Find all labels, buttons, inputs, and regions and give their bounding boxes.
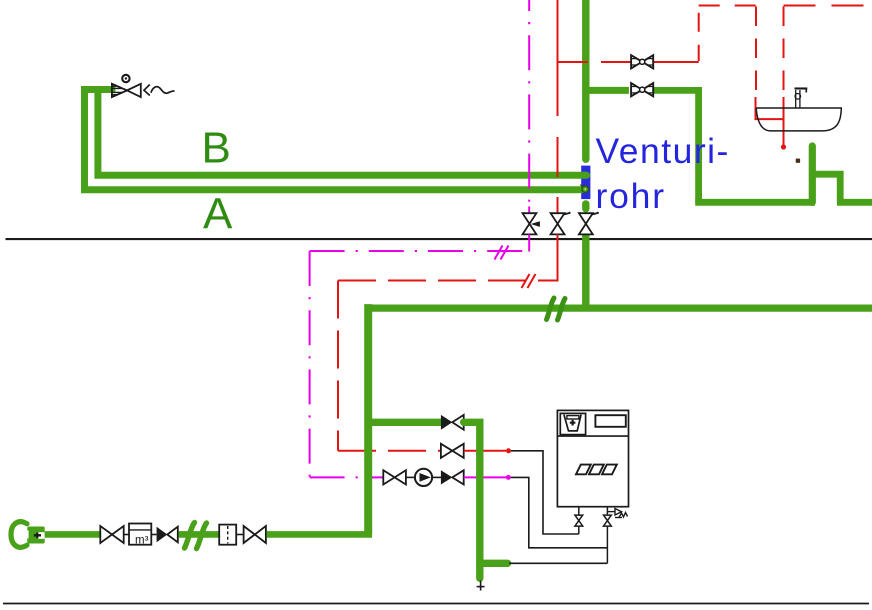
red to boiler row [338, 450, 441, 452]
pipe A (outer, from venturi to tap riser) [85, 90, 583, 190]
water meter [129, 524, 151, 547]
green stub to boiler cold feed [480, 560, 508, 567]
second shut-off valve [244, 526, 266, 543]
svg-text:A: A [203, 190, 233, 239]
pump row: check valve [441, 470, 464, 484]
svg-text:B: B [202, 124, 231, 173]
magenta to pump row [310, 476, 384, 478]
magenta after pump row [464, 476, 507, 478]
red connection dot below sink [781, 144, 786, 149]
washbasin [756, 108, 841, 131]
drain valve on green line [579, 213, 597, 234]
svg-text:m³: m³ [135, 535, 149, 547]
red after valve [464, 450, 506, 452]
safety valve [607, 509, 627, 518]
connector [236, 534, 243, 536]
main green riser (above venturi) [582, 0, 589, 159]
red solid connections at sink [756, 97, 784, 147]
black line green stub to boiler cold connection [509, 562, 607, 564]
boundary line upper [6, 238, 872, 240]
red riser top right corner (dashed up) [698, 6, 700, 62]
label B [202, 124, 231, 173]
house service entry clamp [11, 522, 27, 548]
red break marks [522, 274, 536, 288]
magenta terminal dot [506, 475, 511, 480]
sink drain riser [809, 146, 816, 202]
heater display window [595, 415, 625, 427]
green branch to boiler (row) [368, 419, 441, 426]
pump row: valve [383, 470, 406, 484]
connector [151, 534, 156, 536]
check valve on green boiler branch [441, 415, 464, 430]
drain valve on magenta line [523, 213, 537, 234]
green branch after valve, corner down [653, 90, 698, 202]
hot water shut-off valve (hatched, on red branch) [631, 55, 653, 68]
boundary line lower [3, 603, 869, 605]
bottom run under sink (left segment) [695, 199, 815, 206]
boiler cold connection valve [604, 507, 612, 564]
main green riser (below drain valve through boundary) [582, 235, 589, 309]
basin tap [795, 89, 808, 109]
drain valve on red line [551, 213, 569, 234]
main shut-off valve [100, 526, 123, 543]
black line magenta-dot to boiler circ connection [511, 477, 608, 547]
filter [219, 525, 236, 545]
magenta circulation riser (top) [528, 0, 530, 206]
venturi tube blue block [581, 166, 590, 200]
boiler hot connection valve [575, 507, 583, 534]
funnel cross mark [570, 420, 576, 426]
hose outlet arrow and squiggle [144, 85, 175, 96]
pipe break squiggle [185, 523, 207, 549]
house entry fitting block [22, 527, 45, 544]
main green riser (below venturi to drain valve) [582, 204, 589, 209]
tap valve at top left (hatched bowtie) [112, 84, 141, 97]
bottom run under sink (right segment) [837, 199, 872, 206]
red hot water riser (top) [557, 0, 559, 205]
label A [203, 190, 233, 239]
sampling arrow on magenta drain valve [531, 221, 540, 227]
red drop to sink (right) [783, 7, 785, 99]
green header corner down-leg [364, 308, 368, 534]
red down-leg [337, 281, 339, 451]
green break marks on header [547, 298, 566, 320]
green distribution header [368, 304, 872, 311]
tap valve handwheel circle [122, 75, 129, 82]
magenta break marks [495, 246, 509, 260]
circulation pump [415, 469, 432, 486]
pipe B (inner, from venturi to tap riser) [98, 91, 587, 175]
small junction square [796, 159, 800, 163]
cold water shut-off valve (hatched, on green branch) [631, 83, 653, 96]
jump-over branch [812, 174, 840, 202]
service pipe to riser [267, 531, 372, 538]
pump row: connector [406, 476, 415, 478]
grounding cross below green drop [477, 581, 485, 591]
red below valve, corner left and down [338, 234, 558, 281]
venturi sensor circle [580, 185, 588, 193]
black line red-dot to boiler hot valve [511, 451, 579, 534]
pump row: connector 2 [432, 476, 441, 478]
green pipe through break [179, 531, 220, 538]
red branch to top right [559, 61, 699, 63]
label Venturi-rohr [596, 131, 730, 216]
heater funnel box [560, 413, 585, 434]
red drop to sink (left) [755, 7, 757, 99]
magenta below valve, corner left and down [310, 234, 530, 251]
red row valve [441, 444, 464, 458]
connector [124, 534, 129, 536]
svg-text:Venturi-: Venturi- [596, 131, 730, 171]
svg-text:rohr: rohr [596, 176, 666, 216]
red terminal dot [506, 448, 511, 453]
service pipe [45, 531, 100, 538]
green after check valve, corner down [464, 422, 480, 578]
magenta down-leg [309, 251, 311, 477]
green branch to top right [586, 87, 629, 94]
check valve (service line) [157, 527, 178, 543]
heater louvers [576, 465, 617, 475]
gas water heater body [557, 410, 628, 506]
